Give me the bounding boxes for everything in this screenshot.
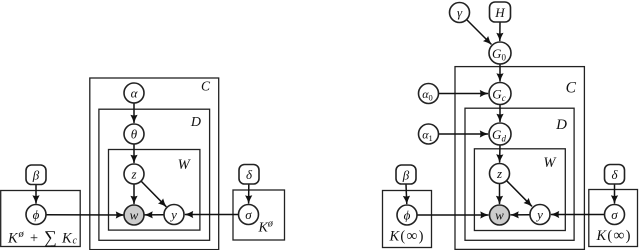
wire sigma->y (left diagram) — [185, 214, 239, 216]
svg-text:C: C — [566, 80, 577, 97]
node gamma (right diagram) — [450, 3, 470, 23]
node alpha0 (right diagram) — [419, 84, 439, 104]
wire gamma->G0 (right diagram) — [467, 20, 492, 45]
plate D (right diagram) — [465, 108, 574, 240]
node y (left diagram) — [164, 205, 184, 225]
svg-text:K(∞): K(∞) — [389, 228, 425, 245]
svg-text:y: y — [535, 207, 543, 222]
svg-text:W: W — [543, 155, 557, 171]
wire y->w (right diagram) — [511, 214, 531, 216]
node z (right diagram) — [490, 164, 510, 184]
node w observed (left diagram) — [124, 205, 144, 225]
plate K-phi-sum (left diagram, bottom-left) — [1, 191, 81, 247]
svg-text:D: D — [190, 115, 201, 130]
node beta hyper (right diagram) — [396, 165, 416, 184]
wire phi->w (left diagram) — [46, 214, 124, 216]
plate W (right diagram) — [474, 149, 565, 231]
svg-text:C: C — [201, 79, 211, 94]
node Gc (right diagram) — [489, 83, 511, 105]
plate C (right diagram) — [455, 67, 584, 250]
plate K-infinity right (right diagram) — [589, 190, 638, 247]
node y (right diagram) — [530, 205, 550, 225]
plate W (left diagram) — [109, 150, 200, 231]
wire delta->sigma (right diagram) — [614, 185, 616, 204]
svg-text:θ: θ — [131, 127, 138, 142]
node theta (left diagram) — [124, 124, 144, 144]
svg-text:γ: γ — [457, 5, 463, 20]
node delta hyper (right diagram) — [605, 165, 625, 185]
plate K-infinity left (right diagram) — [383, 191, 432, 248]
svg-text:H: H — [494, 5, 505, 20]
svg-text:β: β — [402, 167, 410, 182]
wire G0->Gc (right diagram) — [499, 64, 501, 82]
svg-text:σ: σ — [245, 207, 252, 222]
wire z->w (left diagram) — [133, 184, 135, 204]
node phi (right diagram) — [397, 205, 417, 225]
svg-text:z: z — [130, 167, 136, 182]
wire z->y (right diagram) — [507, 181, 532, 207]
wire alpha0->Gc (right diagram) — [439, 93, 489, 95]
wire theta->z (left diagram) — [133, 144, 135, 163]
wire Gd->z (right diagram) — [499, 145, 501, 163]
node H hyper (right diagram) — [490, 2, 511, 22]
node z (left diagram) — [124, 164, 144, 184]
node Gd (right diagram) — [489, 123, 511, 145]
wire z->y (left diagram) — [141, 181, 166, 207]
wire sigma->y (right diagram) — [551, 214, 605, 216]
svg-text:w: w — [130, 208, 139, 223]
svg-text:D: D — [555, 117, 567, 133]
node alpha1 (right diagram) — [419, 124, 439, 144]
svg-text:ϕ: ϕ — [33, 207, 40, 222]
wire H->G0 (right diagram) — [499, 23, 501, 42]
svg-text:δ: δ — [246, 167, 253, 182]
svg-text:β: β — [32, 168, 40, 183]
node alpha (left diagram) — [124, 83, 144, 103]
svg-text:δ: δ — [611, 167, 618, 182]
svg-text:z: z — [496, 166, 502, 181]
wire beta->phi (left diagram) — [35, 185, 37, 204]
node phi (left diagram) — [26, 205, 46, 225]
plate D (left diagram) — [99, 109, 210, 240]
svg-text:σ: σ — [611, 207, 618, 222]
node sigma (left diagram) — [239, 205, 259, 225]
wire y->w (left diagram) — [145, 214, 165, 216]
wire phi->w (right diagram) — [417, 214, 489, 216]
wire z->w (right diagram) — [499, 184, 501, 205]
node w observed (right diagram) — [490, 205, 510, 225]
wire delta->sigma (left diagram) — [248, 185, 250, 204]
node sigma (right diagram) — [605, 205, 625, 225]
wire beta->phi (right diagram) — [405, 185, 408, 205]
wire alpha->theta (left diagram) — [133, 103, 135, 123]
svg-text:ϕ: ϕ — [404, 208, 411, 223]
wire Gc->Gd (right diagram) — [499, 105, 501, 123]
svg-text:W: W — [178, 157, 192, 173]
plate K-phi (left diagram, bottom-right) — [233, 190, 285, 240]
svg-text:Kø: Kø — [258, 219, 274, 236]
svg-text:α: α — [131, 86, 139, 101]
node delta hyper (left diagram) — [239, 165, 259, 185]
svg-text:w: w — [495, 208, 504, 223]
svg-text:K(∞): K(∞) — [596, 227, 632, 244]
plate C (left diagram) — [90, 78, 219, 250]
node beta hyper (left diagram) — [26, 165, 46, 185]
node G0 (right diagram) — [489, 42, 511, 64]
wire alpha1->Gd (right diagram) — [439, 133, 489, 135]
svg-text:y: y — [169, 207, 177, 222]
svg-text:Kø + ∑ Kc: Kø + ∑ Kc — [7, 227, 78, 247]
